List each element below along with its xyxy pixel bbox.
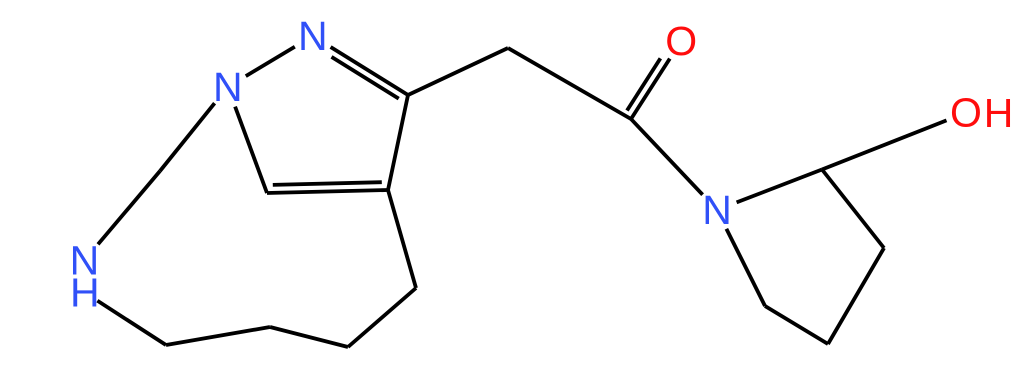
bond C6-C5	[166, 327, 270, 345]
bond C3-C9	[408, 48, 508, 95]
bond C3a-C7a	[267, 190, 388, 193]
bond C5-C4b	[270, 327, 348, 347]
svg-text:O: O	[950, 90, 982, 136]
svg-text:O: O	[665, 18, 697, 64]
bond N2=C3 inner line	[332, 57, 399, 99]
svg-text:H: H	[984, 90, 1014, 136]
bond N2-C3	[331, 47, 408, 95]
bond C3p-C2p	[822, 170, 884, 249]
svg-text:N: N	[213, 64, 243, 110]
bond C4b-C4	[348, 288, 416, 347]
bond C5p-C4p	[765, 306, 828, 344]
bond C7a-N1	[235, 107, 267, 193]
bond N7H-C6	[97, 301, 166, 345]
bond C9-C10	[508, 48, 631, 119]
bond C2p-O2	[822, 120, 947, 169]
bond N3-C2p	[737, 170, 822, 203]
bond C10-O1	[631, 59, 670, 119]
bond C4-C3a	[388, 190, 416, 288]
svg-text:N: N	[702, 187, 732, 233]
bond C4p-C3p	[828, 248, 884, 344]
bond C3a=C7a inner line	[273, 182, 382, 185]
svg-text:H: H	[70, 270, 100, 316]
bond C8-N7	[98, 171, 160, 244]
svg-text:N: N	[298, 13, 328, 59]
bond C10-N3	[631, 119, 703, 195]
bond N1-C8	[160, 103, 215, 171]
bond C10=O1 second line	[627, 58, 660, 110]
bond N1-N2	[246, 47, 295, 76]
bond C3-C3a	[388, 95, 408, 190]
bond N3-C5p	[726, 229, 765, 306]
